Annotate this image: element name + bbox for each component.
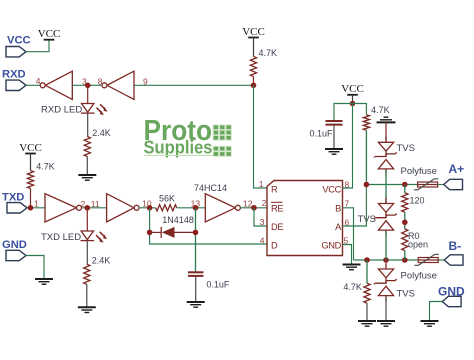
junction diode anode (193, 230, 199, 236)
wire VCC port to supply (26, 40, 49, 52)
wire node10 down (150, 208, 267, 244)
wire polyfuse to A+ port (438, 184, 444, 186)
wire VCC to 4.7K (30, 154, 32, 171)
svg-text:B: B (335, 203, 341, 213)
wire node 3 between G1 and G2 (72, 84, 101, 86)
resistor 120 (termination) (402, 193, 408, 212)
wire IC pin 5 to ground (343, 245, 352, 265)
svg-text:2.4K: 2.4K (92, 128, 111, 138)
svg-text:4.7K: 4.7K (371, 105, 390, 115)
ground (B pulldown) (358, 321, 376, 326)
TVS diode D1 (A to GND) (374, 136, 397, 175)
svg-text:TXD: TXD (2, 192, 24, 204)
wire TXD node to TXD LED (86, 208, 88, 231)
RE overline (271, 201, 283, 203)
svg-text:TVS: TVS (358, 214, 376, 225)
svg-text:GND: GND (438, 285, 465, 299)
wire RE node down to DE (254, 208, 267, 226)
capacitor 0.1uF (decoupling) (326, 121, 343, 125)
wire top ground to TVS1 (385, 122, 387, 142)
resistor 4.7K (A pull-up) (363, 115, 369, 131)
ground (IC pin 5) (343, 265, 361, 270)
svg-text:B-: B- (449, 239, 462, 253)
inverter gate G4 (74HC14) (107, 194, 140, 222)
wire VCC node to 4.7K (353, 104, 367, 115)
svg-text:0.1uF: 0.1uF (206, 280, 230, 290)
resistor 2.4K (TXD LED) (84, 264, 90, 284)
TVS diode D3 (B to GND) (374, 263, 397, 302)
junction R net (251, 83, 257, 89)
svg-text:VCC: VCC (7, 35, 31, 47)
junction B line / R0 (402, 257, 408, 263)
polyfuse F1 (A line) (414, 179, 439, 190)
IC U1 RS485 transceiver box (267, 181, 343, 256)
svg-text:13: 13 (191, 199, 201, 209)
svg-text:GND: GND (2, 239, 27, 251)
svg-text:0.1uF: 0.1uF (310, 129, 334, 139)
wire TXD port to gate G3 (27, 207, 45, 209)
ground (decoupling cap) (325, 149, 343, 154)
svg-text:VCC: VCC (242, 26, 265, 38)
svg-text:VCC: VCC (19, 142, 42, 154)
wire 4.7K to ground (366, 303, 368, 321)
wire cap to ground (333, 125, 335, 149)
svg-text:TVS: TVS (397, 143, 415, 154)
wire R net to IC pin 1 (254, 85, 268, 188)
wire pin 9 to R net (134, 84, 254, 86)
wire G5 output to RE (240, 207, 267, 209)
resistor 56K (156, 205, 177, 211)
wire G4 output to 56K (139, 207, 156, 209)
wire cap to ground (195, 276, 197, 302)
svg-text:12: 12 (243, 199, 253, 209)
ground (TVS3) (377, 321, 395, 326)
wire resistor to ground (86, 157, 88, 176)
inverter gate G2 (74HC14) (102, 71, 134, 99)
polyfuse F2 (B line) (414, 254, 439, 265)
port GND (right) (438, 285, 465, 307)
svg-text:2.4K: 2.4K (92, 256, 111, 266)
wire GND port to ground (430, 302, 443, 322)
svg-text:D: D (271, 241, 278, 251)
wire resistor to ground (86, 284, 88, 307)
LED RXD (81, 104, 108, 116)
wire 4.7K down to A line (365, 130, 367, 184)
port TXD (2, 192, 27, 214)
svg-text:56K: 56K (159, 194, 175, 204)
wire 4.7K to TXD net (30, 189, 32, 208)
wire 56K to pin 13 (177, 207, 206, 209)
wire 120R to R0 (404, 212, 406, 229)
wire VCC to 4.7K (253, 38, 255, 57)
svg-text:4.7K: 4.7K (36, 162, 55, 172)
wire RC node down to cap (195, 208, 197, 272)
wire VCC supply to node (352, 95, 354, 104)
ground (TXD LED chain) (78, 307, 96, 312)
junction B line / TVS (383, 257, 389, 263)
power VCC supply (R pull-up) (242, 26, 265, 38)
port A+ (444, 162, 464, 190)
junction RC node (193, 205, 199, 211)
resistor 2.4K (RXD LED) (84, 137, 90, 157)
svg-text:7: 7 (345, 198, 350, 208)
power VCC supply symbol (top-left) (38, 28, 61, 40)
junction 120/R0 (402, 220, 408, 226)
svg-text:RE: RE (271, 203, 283, 213)
svg-text:Polyfuse: Polyfuse (401, 166, 437, 177)
wire diode row right (175, 231, 196, 233)
inverter gate G3 (74HC14, TXD input) (45, 194, 82, 222)
svg-text:VCC: VCC (322, 184, 341, 194)
junction node 3 (85, 83, 91, 89)
wire A line to 120R (404, 185, 406, 193)
wire RXD port to gate G1 output (26, 84, 41, 86)
power VCC supply (TXD pull-up) (19, 142, 42, 154)
inverter gate G1 (74HC14, RXD output) (40, 71, 72, 99)
svg-text:5: 5 (344, 235, 349, 245)
svg-text:TVS: TVS (397, 289, 415, 300)
wire A line (366, 184, 417, 186)
ground inverted (TVS top) (377, 117, 396, 122)
svg-text:11: 11 (91, 199, 100, 209)
svg-text:1: 1 (34, 199, 39, 209)
svg-text:open: open (408, 240, 428, 250)
wire 4.7K to R net (253, 77, 255, 86)
ProtoSupplies logo (144, 115, 232, 157)
inverter gate G5 (74HC14) (205, 194, 240, 222)
svg-text:2: 2 (262, 198, 267, 208)
junction node after G4 (147, 205, 153, 211)
svg-text:3: 3 (260, 217, 265, 227)
wire TVS2 to B line (385, 232, 387, 261)
svg-text:VCC: VCC (38, 28, 61, 40)
wire VCC node to IC pin 8 (343, 104, 353, 189)
svg-text:TXD LED: TXD LED (41, 232, 81, 243)
junction VCC node (350, 101, 356, 107)
wire B line to 4.7K pulldown (366, 260, 368, 283)
resistor 4.7K (R pull-up) (250, 57, 256, 77)
wire IC pin 6 A to A line (343, 185, 367, 227)
LED TXD (81, 231, 108, 243)
wire node between G3 and G4 (82, 207, 106, 209)
svg-text:A+: A+ (449, 162, 465, 176)
wire GND port to ground (26, 256, 44, 280)
capacitor 0.1uF (RC delay) (188, 272, 204, 276)
junction A line / pull-up (364, 182, 370, 188)
svg-text:74HC14: 74HC14 (194, 183, 227, 193)
svg-text:Supplies: Supplies (144, 137, 213, 157)
svg-text:4.7K: 4.7K (343, 282, 362, 292)
wire diode row left (150, 231, 161, 233)
svg-text:120: 120 (410, 196, 425, 206)
port RXD (2, 69, 26, 91)
wire RXD LED to resistor (87, 113, 89, 136)
svg-text:Polyfuse: Polyfuse (401, 271, 437, 282)
junction diode cathode (147, 230, 153, 236)
svg-text:1: 1 (259, 179, 264, 189)
svg-text:R: R (271, 184, 278, 194)
wire IC pin 7 B to B line (343, 208, 354, 260)
TVS diode D2 (A to B) (374, 198, 397, 237)
junction A line / 120R (402, 182, 408, 188)
wire TVS3 to ground (385, 297, 387, 321)
resistor 4.7K (TXD pull-up) (27, 171, 33, 189)
ground (RXD LED chain) (78, 175, 96, 180)
svg-text:DE: DE (271, 222, 283, 232)
junction TXD LED node (85, 205, 91, 211)
wire node 3 to RXD LED (87, 85, 89, 103)
port VCC (input header) (6, 35, 31, 57)
svg-text:GND: GND (321, 241, 341, 251)
svg-text:VCC: VCC (341, 83, 364, 95)
wire B line (354, 259, 418, 261)
svg-text:4.7K: 4.7K (259, 48, 278, 58)
svg-text:RXD: RXD (2, 69, 26, 81)
resistor 4.7K (B pulldown) (364, 283, 370, 303)
svg-text:4: 4 (260, 235, 265, 245)
junction TXD node (28, 205, 34, 211)
wire R0 to B line (404, 251, 406, 261)
svg-text:1N4148: 1N4148 (162, 215, 194, 225)
ground (GND port right) (421, 321, 439, 326)
svg-text:RXD LED: RXD LED (41, 104, 82, 115)
resistor R0 (open) (402, 229, 408, 251)
ground (GND port left) (35, 279, 53, 284)
junction RE/DE node (251, 205, 257, 211)
port B- (444, 239, 463, 265)
wire TVS1 to TVS2 (crosses A line) (385, 170, 387, 203)
junction B line / pulldown (364, 257, 370, 263)
wire TXD LED to resistor (86, 241, 88, 265)
port GND (left) (2, 239, 27, 261)
wire VCC node to cap (334, 104, 353, 122)
ground (RC cap) (187, 302, 205, 307)
wire polyfuse to B- port (438, 259, 444, 261)
power VCC supply (IC) (341, 83, 364, 95)
diode 1N4148 (161, 227, 174, 238)
